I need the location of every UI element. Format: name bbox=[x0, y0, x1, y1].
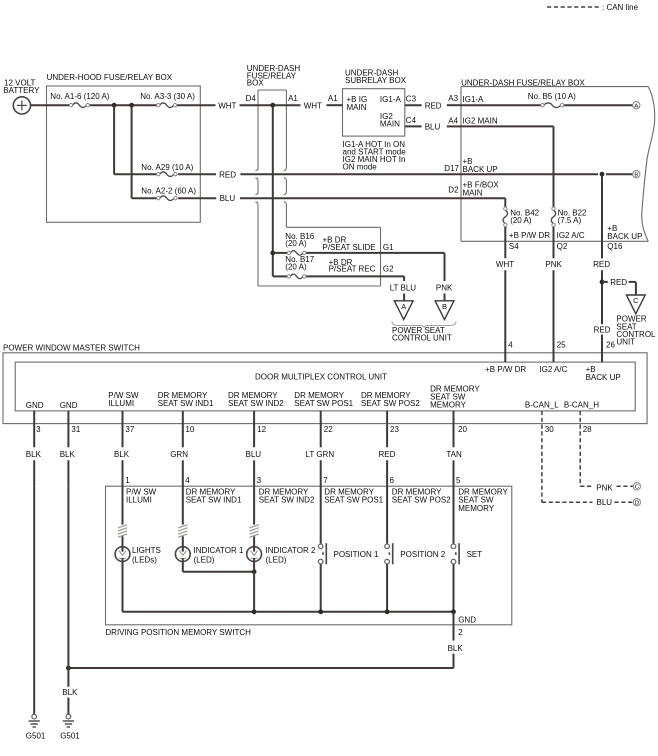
svg-text:BACK UP: BACK UP bbox=[586, 373, 621, 382]
svg-text:(7.5 A): (7.5 A) bbox=[558, 216, 582, 225]
svg-text:IG2 A/C: IG2 A/C bbox=[557, 231, 585, 240]
svg-text:BACK UP: BACK UP bbox=[607, 232, 642, 241]
svg-text:Q16: Q16 bbox=[607, 242, 623, 251]
svg-text:P/SEAT SLIDE: P/SEAT SLIDE bbox=[323, 243, 376, 252]
svg-text:GRN: GRN bbox=[170, 450, 188, 459]
svg-text:10: 10 bbox=[185, 425, 194, 434]
svg-text:BLU: BLU bbox=[246, 450, 262, 459]
svg-text:D: D bbox=[635, 500, 639, 506]
svg-text:WHT: WHT bbox=[304, 101, 322, 110]
svg-text:B: B bbox=[442, 302, 447, 311]
svg-text:G501: G501 bbox=[60, 732, 80, 741]
svg-text:BLK: BLK bbox=[62, 688, 78, 697]
svg-text:A4: A4 bbox=[448, 117, 458, 126]
svg-text:A: A bbox=[634, 103, 638, 109]
svg-text:(20 A): (20 A) bbox=[285, 263, 307, 272]
svg-text:G501: G501 bbox=[26, 732, 46, 741]
svg-text:SEAT SW IND1: SEAT SW IND1 bbox=[186, 496, 242, 505]
svg-text:BOX: BOX bbox=[247, 78, 265, 87]
svg-text:BLU: BLU bbox=[220, 194, 236, 203]
svg-text:POSITION 2: POSITION 2 bbox=[400, 550, 445, 559]
svg-text:BLU: BLU bbox=[597, 498, 613, 507]
svg-text:IG1-A: IG1-A bbox=[380, 95, 402, 104]
svg-text:GND: GND bbox=[60, 401, 78, 410]
svg-text:D4: D4 bbox=[246, 94, 257, 103]
svg-text:12: 12 bbox=[257, 425, 266, 434]
svg-text:(20 A): (20 A) bbox=[510, 216, 532, 225]
svg-text:SEAT SW IND1: SEAT SW IND1 bbox=[158, 399, 214, 408]
svg-text:P/SEAT REC: P/SEAT REC bbox=[329, 264, 376, 273]
svg-text:IG1-A: IG1-A bbox=[463, 95, 485, 104]
svg-text:PNK: PNK bbox=[545, 260, 562, 269]
svg-text:DOOR MULTIPLEX CONTROL UNIT: DOOR MULTIPLEX CONTROL UNIT bbox=[255, 372, 387, 381]
svg-text:+B P/W DR: +B P/W DR bbox=[485, 365, 526, 374]
svg-text:23: 23 bbox=[390, 425, 399, 434]
svg-text:S4: S4 bbox=[509, 242, 519, 251]
svg-text:+B P/W DR: +B P/W DR bbox=[509, 231, 550, 240]
svg-text:SEAT SW IND2: SEAT SW IND2 bbox=[259, 496, 315, 505]
svg-text:RED: RED bbox=[219, 170, 236, 179]
svg-text:No. B5 (10 A): No. B5 (10 A) bbox=[528, 92, 576, 101]
svg-text:ON mode: ON mode bbox=[343, 162, 378, 171]
svg-text:RED: RED bbox=[425, 101, 442, 110]
svg-text:30: 30 bbox=[545, 425, 554, 434]
svg-text:No. A2-2 (60 A): No. A2-2 (60 A) bbox=[141, 186, 196, 195]
svg-text:Q2: Q2 bbox=[557, 242, 568, 251]
svg-text:BLK: BLK bbox=[26, 450, 42, 459]
svg-text:2: 2 bbox=[458, 628, 463, 637]
svg-text:A1: A1 bbox=[328, 94, 338, 103]
svg-text:PNK: PNK bbox=[436, 284, 453, 293]
svg-text:GND: GND bbox=[458, 616, 476, 625]
svg-text:3: 3 bbox=[36, 425, 41, 434]
svg-text:RED: RED bbox=[379, 450, 396, 459]
svg-text:SEAT SW POS2: SEAT SW POS2 bbox=[392, 496, 451, 505]
svg-text:A1: A1 bbox=[288, 94, 298, 103]
svg-text:B-CAN_H: B-CAN_H bbox=[564, 400, 599, 409]
svg-text:LT BLU: LT BLU bbox=[390, 284, 417, 293]
svg-text:LT GRN: LT GRN bbox=[306, 450, 335, 459]
svg-text:POWER WINDOW MASTER SWITCH: POWER WINDOW MASTER SWITCH bbox=[3, 343, 140, 352]
svg-text:5: 5 bbox=[456, 476, 461, 485]
svg-text:CONTROL UNIT: CONTROL UNIT bbox=[392, 333, 452, 342]
svg-text:UNDER-DASH FUSE/RELAY BOX: UNDER-DASH FUSE/RELAY BOX bbox=[461, 78, 585, 87]
svg-text:7: 7 bbox=[323, 476, 328, 485]
svg-text:SET: SET bbox=[467, 550, 483, 559]
svg-text:SEAT SW POS1: SEAT SW POS1 bbox=[324, 496, 383, 505]
svg-text:22: 22 bbox=[324, 425, 333, 434]
svg-text:BATTERY: BATTERY bbox=[3, 86, 40, 95]
svg-text:MEMORY: MEMORY bbox=[458, 504, 495, 513]
svg-text:No. A3-3 (30 A): No. A3-3 (30 A) bbox=[140, 92, 195, 101]
svg-text:G1: G1 bbox=[383, 243, 394, 252]
svg-text:MEMORY: MEMORY bbox=[430, 400, 467, 409]
svg-text:BLU: BLU bbox=[425, 123, 441, 132]
svg-text:WHT: WHT bbox=[496, 260, 514, 269]
svg-text:IG2 A/C: IG2 A/C bbox=[539, 365, 567, 374]
svg-text:SEAT SW POS2: SEAT SW POS2 bbox=[361, 399, 420, 408]
svg-text:INDICATOR 1: INDICATOR 1 bbox=[194, 546, 244, 555]
svg-text:BLK: BLK bbox=[60, 450, 76, 459]
svg-text:UNIT: UNIT bbox=[616, 338, 635, 347]
svg-text:G2: G2 bbox=[383, 264, 394, 273]
svg-text:ILLUMI: ILLUMI bbox=[108, 399, 134, 408]
svg-text:ILLUMI: ILLUMI bbox=[126, 496, 152, 505]
svg-text:MAIN: MAIN bbox=[347, 103, 367, 112]
svg-text:(LEDs): (LEDs) bbox=[132, 555, 157, 564]
svg-text:31: 31 bbox=[71, 425, 80, 434]
svg-text:28: 28 bbox=[583, 425, 592, 434]
svg-text:A3: A3 bbox=[448, 94, 458, 103]
svg-text:D2: D2 bbox=[448, 186, 459, 195]
svg-text:B: B bbox=[634, 172, 638, 178]
svg-text:MAIN: MAIN bbox=[380, 120, 400, 129]
svg-text:4: 4 bbox=[508, 340, 513, 349]
svg-text:3: 3 bbox=[257, 476, 262, 485]
svg-text:D17: D17 bbox=[444, 164, 459, 173]
svg-text:(20 A): (20 A) bbox=[285, 239, 307, 248]
svg-text:(LED): (LED) bbox=[266, 555, 287, 564]
svg-text:WHT: WHT bbox=[218, 101, 236, 110]
svg-text:IG2 MAIN: IG2 MAIN bbox=[463, 117, 498, 126]
svg-text:BLK: BLK bbox=[448, 644, 464, 653]
svg-text:: CAN line: : CAN line bbox=[602, 3, 639, 12]
svg-text:No. A1-6 (120 A): No. A1-6 (120 A) bbox=[50, 92, 109, 101]
svg-text:26: 26 bbox=[606, 340, 615, 349]
svg-text:GND: GND bbox=[26, 401, 44, 410]
svg-text:C: C bbox=[635, 485, 639, 491]
svg-text:1: 1 bbox=[125, 476, 130, 485]
svg-text:B-CAN_L: B-CAN_L bbox=[525, 400, 559, 409]
svg-text:BLK: BLK bbox=[114, 450, 130, 459]
svg-text:SEAT SW POS1: SEAT SW POS1 bbox=[294, 399, 353, 408]
svg-text:A: A bbox=[401, 302, 406, 311]
svg-text:C3: C3 bbox=[406, 95, 417, 104]
svg-text:37: 37 bbox=[125, 425, 134, 434]
svg-text:PNK: PNK bbox=[596, 483, 613, 492]
svg-text:6: 6 bbox=[390, 476, 395, 485]
svg-text:MAIN: MAIN bbox=[463, 188, 483, 197]
svg-text:20: 20 bbox=[458, 425, 467, 434]
svg-text:LIGHTS: LIGHTS bbox=[132, 546, 161, 555]
svg-text:RED: RED bbox=[594, 326, 611, 335]
svg-text:4: 4 bbox=[185, 476, 190, 485]
svg-text:C: C bbox=[633, 296, 639, 305]
svg-text:POSITION 1: POSITION 1 bbox=[334, 550, 379, 559]
svg-text:No. A29 (10 A): No. A29 (10 A) bbox=[141, 163, 193, 172]
svg-text:C4: C4 bbox=[406, 116, 417, 125]
svg-text:RED: RED bbox=[610, 278, 627, 287]
svg-text:(LED): (LED) bbox=[194, 555, 215, 564]
svg-text:INDICATOR 2: INDICATOR 2 bbox=[266, 546, 316, 555]
svg-text:BACK UP: BACK UP bbox=[463, 165, 498, 174]
svg-text:DRIVING POSITION MEMORY SWITCH: DRIVING POSITION MEMORY SWITCH bbox=[105, 628, 251, 637]
svg-text:TAN: TAN bbox=[446, 450, 462, 459]
svg-text:SEAT SW IND2: SEAT SW IND2 bbox=[228, 399, 284, 408]
svg-text:RED: RED bbox=[593, 260, 610, 269]
svg-text:25: 25 bbox=[557, 340, 566, 349]
svg-text:SUBRELAY BOX: SUBRELAY BOX bbox=[345, 76, 407, 85]
svg-text:UNDER-HOOD FUSE/RELAY BOX: UNDER-HOOD FUSE/RELAY BOX bbox=[47, 73, 173, 82]
